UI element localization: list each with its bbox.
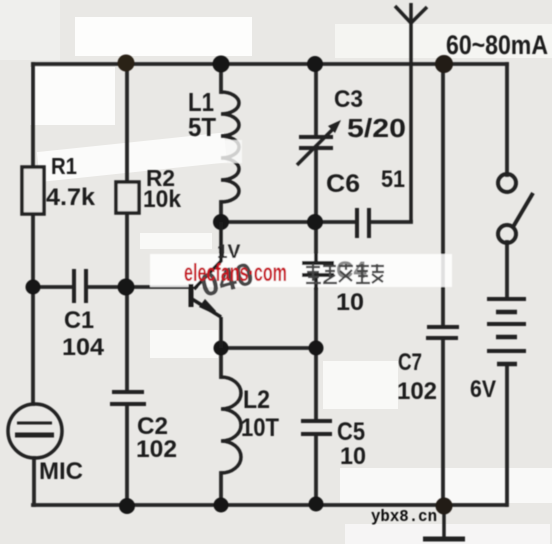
inductor L1 [221, 92, 239, 202]
wire C1 left segment [33, 285, 71, 289]
svg-text:5T: 5T [188, 112, 216, 142]
wire C5 top lead [314, 348, 318, 420]
node base junction [118, 279, 135, 296]
capacitor C2 [110, 392, 146, 404]
capacitor C1 [74, 269, 86, 303]
svg-text:C3: C3 [334, 86, 363, 113]
wire left vertical middle [31, 214, 35, 404]
wire switch branch top [505, 64, 509, 175]
node bottom bus x127 [119, 498, 135, 514]
wire C1 right segment [88, 285, 126, 289]
transistor V1 [191, 222, 221, 348]
svg-text:elecfans·com: elecfans·com [184, 259, 287, 287]
capacitor C6 [357, 208, 369, 238]
wire L1 bottom lead [219, 202, 223, 222]
wire left vertical lower (MIC to bottom bus) [32, 458, 36, 505]
wire C5 bottom lead [314, 435, 318, 503]
wire bottom bus [33, 503, 506, 507]
svg-text:R1: R1 [51, 153, 77, 179]
wire C4 top lead [314, 222, 318, 262]
antenna [395, 3, 427, 222]
node emitter bus x316 [309, 341, 324, 356]
switch S [498, 174, 533, 243]
wire R2 branch upper [125, 64, 129, 182]
watermark chinese glyphs [306, 264, 384, 283]
inductor L2 [221, 377, 241, 473]
svg-text:102: 102 [136, 436, 177, 463]
node bottom bus x316 [309, 497, 324, 512]
wire switch to battery [505, 242, 509, 297]
node top bus x127 [118, 55, 135, 72]
svg-text:10T: 10T [241, 414, 279, 442]
svg-text:4.7k: 4.7k [46, 184, 96, 211]
node top bus x316 [307, 56, 323, 72]
node mid bus x316 [307, 214, 323, 230]
battery GB 6V [487, 299, 526, 364]
wire L2 bottom lead [219, 473, 223, 505]
variable capacitor C3 [297, 126, 336, 165]
svg-text:C5: C5 [337, 418, 365, 446]
svg-text:10: 10 [340, 443, 366, 470]
wire mid bus right (C6 to antenna corner) [371, 220, 411, 224]
node bottom bus x221 [214, 498, 229, 513]
svg-text:10: 10 [336, 289, 364, 316]
svg-text:ybx8.cn: ybx8.cn [371, 508, 437, 527]
svg-text:60~80mA: 60~80mA [446, 30, 548, 60]
wire emitter bus [221, 346, 316, 350]
wire C3 to mid bus [314, 149, 318, 222]
svg-text:51: 51 [381, 166, 405, 193]
svg-text:C7: C7 [398, 349, 422, 376]
wire base lead [126, 285, 188, 289]
resistor R1 [22, 167, 44, 214]
node mid bus x221 [213, 214, 229, 230]
svg-text:6V: 6V [470, 376, 496, 403]
svg-text:5/20: 5/20 [347, 113, 406, 143]
svg-text:104: 104 [62, 334, 105, 361]
node C1 left [26, 280, 41, 295]
capacitor C4 [302, 254, 334, 290]
node top bus x221 [213, 56, 230, 73]
wire C4 bottom lead [314, 276, 318, 348]
node bottom bus x444 [436, 498, 453, 515]
node emitter bus x221 [214, 341, 229, 356]
wire C7 branch upper [441, 64, 445, 326]
capacitor C7 [426, 327, 459, 338]
wire C2 to bottom bus [125, 404, 129, 505]
wire C3 branch top [314, 64, 318, 136]
capacitor C5 [301, 421, 332, 434]
svg-text:102: 102 [397, 378, 437, 405]
wire C7 branch lower [441, 340, 445, 507]
wire top bus [33, 62, 507, 66]
svg-text:C6: C6 [326, 170, 360, 198]
wire mid bus left (node to C6) [221, 220, 355, 224]
wire R2 branch middle [125, 213, 129, 392]
wire L1 top lead [219, 64, 223, 92]
microphone MIC [8, 404, 62, 458]
wire L2 top lead [219, 348, 223, 377]
svg-text:MIC: MIC [39, 458, 83, 485]
wire battery to bottom bus [505, 364, 509, 505]
svg-text:10k: 10k [143, 186, 182, 213]
node top bus x443 [435, 55, 453, 73]
wire left vertical upper [31, 64, 35, 167]
svg-text:C1: C1 [64, 307, 94, 334]
watermark white band [150, 254, 452, 287]
ground stub bottom right [423, 507, 465, 539]
resistor R2 [116, 182, 139, 213]
svg-text:L2: L2 [243, 386, 270, 414]
